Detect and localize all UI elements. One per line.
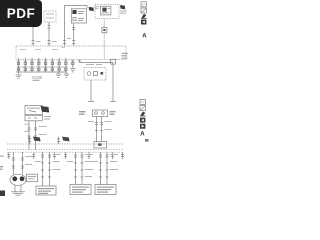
- module box M1 (dashed): [95, 5, 119, 19]
- marker A top: [142, 34, 147, 40]
- connector ticks on top wires: [32, 41, 76, 44]
- wire under badge: [32, 26, 34, 46]
- wires from RB1: [96, 117, 101, 143]
- annotation icon arrow box left: [140, 118, 145, 123]
- junction block inner smudges: [20, 47, 65, 50]
- dashed wire: [103, 19, 105, 28]
- splice block: [102, 27, 107, 33]
- annotation icon square 1: [141, 2, 146, 7]
- small mark right edge: [145, 139, 149, 142]
- relay box U1: [71, 9, 86, 23]
- long wire left: [88, 80, 94, 102]
- ground G304: [16, 72, 22, 78]
- harness dashed line 2: [7, 149, 124, 151]
- annotation icon arrow box: [141, 20, 146, 25]
- connector stubs below harness: [7, 152, 124, 159]
- ground chain A: [11, 192, 25, 195]
- chain B smudges: [35, 154, 61, 170]
- chain D wires: [101, 152, 108, 185]
- smudges: [88, 121, 112, 130]
- wire: [48, 22, 51, 46]
- module label smudge: [120, 11, 127, 14]
- svg-text:A: A: [142, 34, 147, 40]
- annotation icon pen: [141, 14, 147, 18]
- PDF badge: [0, 0, 42, 27]
- module flag mark: [120, 5, 125, 9]
- label smudge: [44, 116, 51, 120]
- bus line right: [80, 62, 114, 64]
- label box C: [70, 185, 91, 195]
- control box RB1: [93, 110, 108, 117]
- ticks: [95, 123, 103, 131]
- module inner: [100, 6, 111, 15]
- JB label smudge: [122, 53, 129, 59]
- fuse F2 with flag: [57, 137, 70, 145]
- label text smudge: [95, 6, 100, 9]
- marker A bottom: [140, 132, 145, 138]
- sensor S1 (dashed box): [84, 68, 106, 81]
- RB1 side smudges: [79, 111, 116, 115]
- flag connector mark: [89, 7, 94, 11]
- chain B wires: [43, 152, 50, 186]
- motor label text: [28, 176, 36, 179]
- chain A ticks: [12, 158, 24, 168]
- chain connector ticks: [28, 128, 38, 138]
- fuse F3: [94, 142, 107, 149]
- svg-text:G305: G305: [32, 75, 43, 80]
- label box B text: [38, 188, 54, 194]
- connector on dashed wire: [111, 59, 116, 64]
- drop to bus2: [78, 60, 81, 63]
- sensor label smudge: [86, 64, 102, 65]
- chain D smudges: [92, 154, 118, 170]
- left edge smudge: [0, 156, 4, 157]
- connector block: [25, 115, 42, 121]
- long wire right: [110, 63, 116, 102]
- label box B: [36, 186, 56, 195]
- lower connector marks on drops: [17, 67, 68, 71]
- wire: [72, 23, 75, 46]
- label box D: [95, 185, 116, 195]
- chain C wires: [76, 152, 83, 185]
- switch SW1: [25, 106, 42, 115]
- harness dashed line 3: [7, 151, 124, 153]
- svg-text:A: A: [140, 132, 145, 138]
- annotation icon square 1b: [140, 100, 145, 105]
- junction block JB (dashed): [16, 46, 126, 60]
- chain A smudges: [25, 156, 33, 165]
- drop label smudges: [21, 67, 65, 68]
- chain C smudges: [67, 154, 93, 177]
- connector marks on drops: [17, 61, 68, 65]
- stubs above dashed box bottom: [19, 58, 66, 60]
- ground bus: [16, 71, 67, 73]
- dashed wire: [103, 33, 105, 59]
- chain wires: [29, 121, 36, 150]
- label box C text: [72, 187, 89, 193]
- dark flag: [41, 106, 50, 113]
- extra drop with ground: [70, 60, 76, 72]
- connector C100: [44, 11, 56, 22]
- annotation icon square 2b: [140, 106, 145, 111]
- annotation icon arrow box right: [140, 124, 145, 129]
- grounds under bus1: [56, 72, 70, 77]
- 8 drops with connectors: [19, 60, 66, 73]
- chain C ticks: [74, 155, 84, 177]
- chain B ticks: [41, 155, 51, 177]
- harness dashed line 1: [7, 143, 124, 145]
- chain A wires: [13, 152, 22, 175]
- L-routed wire to relay: [65, 6, 88, 47]
- motor M (two dark dots): [10, 174, 26, 185]
- chain D ticks: [99, 155, 109, 177]
- left edge mark: [0, 166, 3, 170]
- fuse F1 with flag: [28, 137, 41, 145]
- wire label smudges: [36, 38, 72, 42]
- label box D text: [97, 187, 114, 193]
- bottom left page marker: [0, 191, 5, 197]
- ground label G305: [32, 75, 43, 81]
- chain A lower wires: [15, 185, 21, 192]
- chain label smudges: [25, 124, 47, 135]
- annotation icon pen b: [140, 112, 146, 117]
- motor label box: [27, 174, 38, 182]
- annotation icon square 2: [141, 8, 146, 13]
